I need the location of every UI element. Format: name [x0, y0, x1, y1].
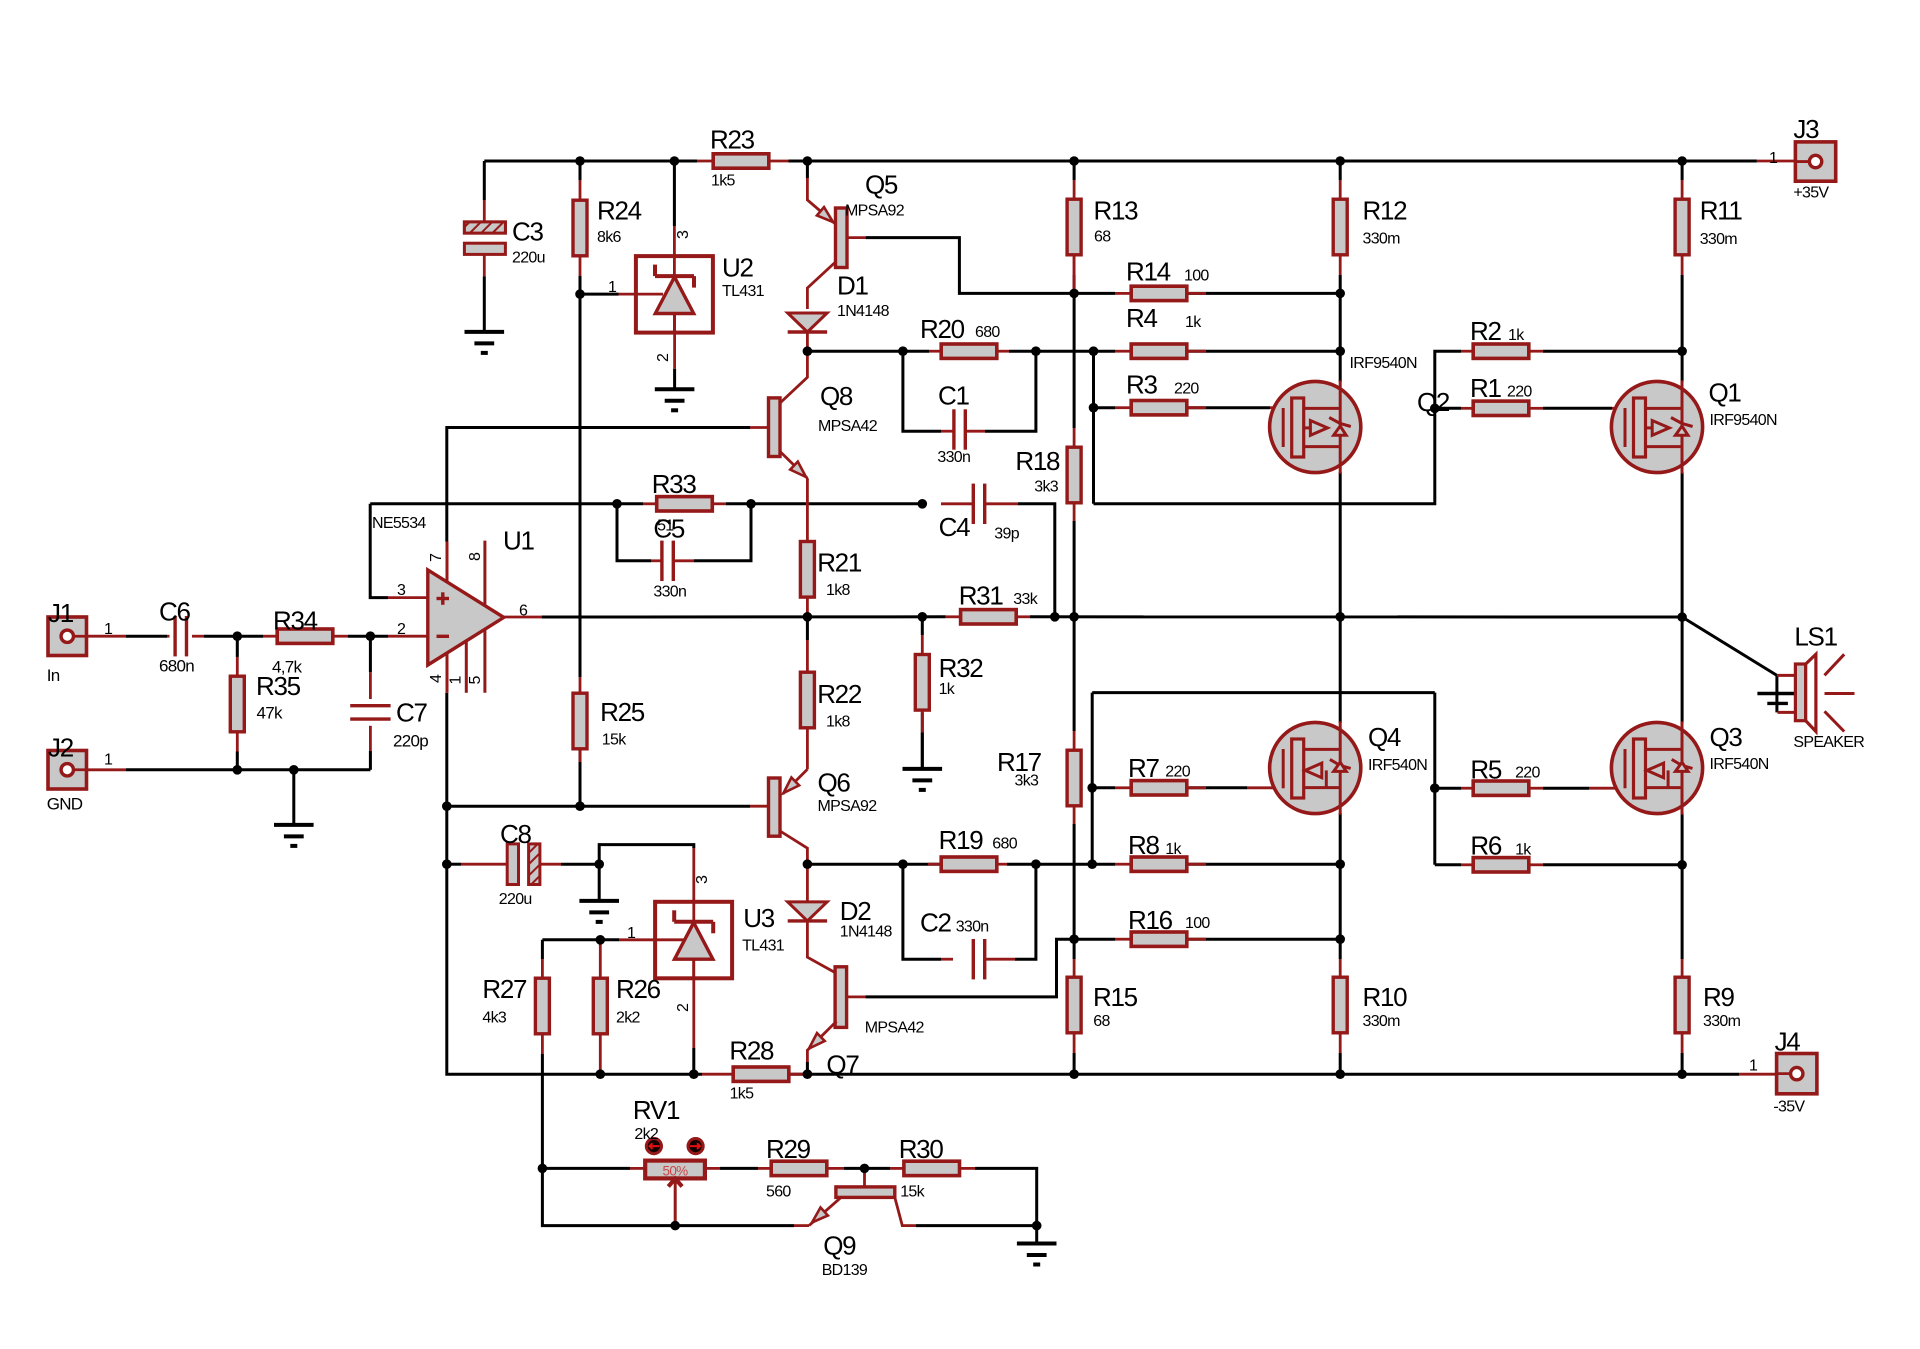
- resistor R7: [1131, 781, 1187, 795]
- resistor R5: [1473, 781, 1529, 795]
- svg-text:2: 2: [655, 353, 672, 362]
- wire C6 to R34 node: [204, 635, 263, 638]
- wire R13 top lead: [1073, 161, 1076, 180]
- svg-text:R22: R22: [817, 679, 862, 709]
- wire U2 gnd: [673, 369, 676, 390]
- wire R33 leads: [617, 502, 643, 505]
- wire R4 leads: [1115, 350, 1131, 353]
- wire R9 leads: [1681, 959, 1684, 977]
- wire C7 leads: [369, 672, 372, 699]
- svg-text:R20: R20: [920, 314, 965, 344]
- wire D2/R19 node row: [807, 863, 941, 866]
- junction node (237.3,636.2): [233, 631, 243, 641]
- wire R3 leads: [1115, 406, 1131, 409]
- wire R9 bottom lead: [1681, 1053, 1684, 1074]
- junction node (446.8,806.2): [442, 801, 452, 811]
- wire Q7 base path: [865, 939, 1074, 997]
- svg-text:Q3: Q3: [1710, 722, 1743, 752]
- resistor R18: [1067, 447, 1081, 503]
- wire R20 leads: [929, 350, 942, 353]
- mosfet Q4 IRF540N: [1270, 722, 1361, 813]
- wire U2 pin2 lead: [673, 333, 676, 369]
- wire R5 row: [1435, 787, 1461, 790]
- wire R1 row: [1435, 407, 1461, 410]
- connector J1: [48, 617, 87, 656]
- wire C4 leads: [941, 502, 973, 505]
- junction node (1682.1,1074.2): [1677, 1069, 1687, 1079]
- svg-text:1N4148: 1N4148: [837, 303, 890, 320]
- resistor R13: [1067, 199, 1081, 255]
- svg-text:J4: J4: [1775, 1027, 1801, 1057]
- resistor R27: [535, 978, 549, 1034]
- wire Q3 source vertical: [1681, 472, 1684, 723]
- svg-text:8: 8: [467, 552, 484, 561]
- junction node (1074.1,939.2): [1069, 934, 1079, 944]
- wire R21 R22 vertical: [806, 617, 809, 640]
- resistor R23: [713, 154, 769, 168]
- svg-text:100: 100: [1185, 915, 1210, 932]
- wire J2 row: [126, 768, 370, 771]
- wire R6 row: [1435, 863, 1461, 866]
- wire C8 leads: [461, 863, 507, 866]
- resistor R12: [1333, 199, 1347, 255]
- resistor R30: [904, 1161, 960, 1175]
- connector J2: [48, 751, 87, 790]
- wire RV1 leads: [630, 1167, 646, 1170]
- mosfet Q1 IRF9540N: [1611, 381, 1702, 472]
- LS1 terminal bars: [1757, 692, 1797, 695]
- svg-text:1k: 1k: [1515, 842, 1532, 859]
- wire R7 row: [1092, 786, 1115, 789]
- junction node (293.8,769.8): [289, 765, 299, 775]
- svg-text:MPSA42: MPSA42: [865, 1020, 925, 1037]
- junction node (1434.8,408.3): [1430, 404, 1440, 414]
- resistor R31: [961, 610, 1017, 624]
- resistor R11: [1675, 199, 1689, 255]
- svg-text:1k5: 1k5: [730, 1085, 754, 1102]
- svg-text:3: 3: [675, 230, 692, 239]
- wire Q4 gate top loop: [1092, 691, 1435, 694]
- wire U3 pin2 lead: [692, 978, 695, 1048]
- svg-text:TL431: TL431: [722, 283, 765, 300]
- svg-text:3k3: 3k3: [1034, 478, 1058, 495]
- svg-text:IRF540N: IRF540N: [1710, 756, 1769, 773]
- junction node (1682.1,617.1): [1677, 612, 1687, 622]
- svg-text:1: 1: [104, 752, 113, 769]
- resistor R32: [915, 655, 929, 711]
- wire C2 leads: [941, 958, 953, 961]
- svg-text:5: 5: [467, 676, 484, 685]
- wire feedback row pin3: [370, 502, 617, 505]
- wire Q6 base lead: [750, 805, 769, 808]
- resistor R4: [1131, 344, 1187, 358]
- resistor R33: [657, 497, 713, 511]
- connector J4: [1777, 1054, 1817, 1094]
- wire R16 row: [1074, 938, 1115, 941]
- svg-text:R15: R15: [1093, 982, 1138, 1012]
- svg-text:R26: R26: [616, 974, 661, 1004]
- svg-text:220: 220: [1174, 381, 1199, 398]
- wire Q9 emitter/collector leads: [794, 1224, 809, 1227]
- potentiometer RV1: [645, 1161, 705, 1179]
- wire pin4 / y806 row: [447, 693, 601, 1074]
- svg-text:4: 4: [428, 674, 445, 683]
- svg-text:R5: R5: [1470, 755, 1501, 785]
- wire J2 pin lead: [87, 768, 127, 771]
- svg-text:1k: 1k: [1165, 841, 1182, 858]
- resistor R28: [733, 1067, 789, 1081]
- ground below U2: [655, 387, 695, 391]
- svg-text:R21: R21: [817, 547, 862, 577]
- svg-text:7: 7: [428, 553, 445, 562]
- junction node (600.3,1074.2): [596, 1069, 606, 1079]
- wire U2 pin1 lead: [619, 293, 664, 296]
- svg-text:3: 3: [397, 582, 406, 599]
- svg-text:15k: 15k: [900, 1183, 925, 1200]
- svg-text:R30: R30: [899, 1134, 944, 1164]
- resistor R29: [771, 1161, 827, 1175]
- wire R24 top lead: [579, 161, 582, 180]
- svg-text:39p: 39p: [994, 526, 1019, 543]
- junction node (580,806.2): [575, 801, 585, 811]
- svg-text:R31: R31: [959, 581, 1004, 611]
- svg-text:220: 220: [1165, 764, 1190, 781]
- svg-text:1k: 1k: [939, 681, 956, 698]
- svg-text:SPEAKER: SPEAKER: [1793, 734, 1864, 751]
- svg-text:6: 6: [519, 602, 528, 619]
- op-amp U1 NE5534: [446, 542, 449, 601]
- wire R35 leads: [236, 657, 239, 676]
- svg-text:220u: 220u: [512, 249, 545, 266]
- svg-text:R1: R1: [1470, 373, 1501, 403]
- svg-text:560: 560: [766, 1183, 791, 1200]
- wire R13 bottom lead: [1073, 255, 1076, 294]
- svg-text:Q4: Q4: [1368, 722, 1401, 752]
- diode D1: [788, 313, 827, 332]
- wire R6 leads: [1461, 863, 1472, 866]
- svg-text:R11: R11: [1700, 196, 1743, 226]
- wire RV1 row: [542, 1167, 630, 1170]
- svg-text:4k3: 4k3: [482, 1009, 506, 1026]
- svg-text:1: 1: [448, 676, 465, 685]
- junction node (1340.2,864.2): [1335, 859, 1345, 869]
- resistor R1: [1473, 401, 1529, 415]
- svg-text:LS1: LS1: [1794, 621, 1837, 651]
- resistor R21: [800, 542, 814, 598]
- svg-text:C7: C7: [396, 697, 427, 727]
- svg-text:TL431: TL431: [742, 937, 785, 954]
- junction node (1035.9,351.2): [1031, 346, 1041, 356]
- svg-text:15k: 15k: [602, 731, 627, 748]
- junction node (1340.2,1074.2): [1335, 1069, 1345, 1079]
- wire R25 vertical: [579, 294, 582, 677]
- svg-text:D2: D2: [840, 896, 871, 926]
- capacitor C3: [464, 222, 505, 233]
- wire R12-R14-R4 vertical: [1339, 275, 1342, 382]
- wire C7 top lead: [369, 636, 372, 672]
- junction node (1035.9,864.2): [1031, 859, 1041, 869]
- ground at J2: [274, 823, 314, 827]
- svg-text:Q5: Q5: [865, 170, 898, 200]
- svg-text:330m: 330m: [1703, 1013, 1741, 1030]
- wire C3 bottom lead: [483, 254, 486, 277]
- junction node (807.4,161): [803, 156, 813, 166]
- ground below C8: [579, 899, 619, 903]
- wire feedback to C4: [751, 502, 922, 505]
- junction node (617,503.8): [612, 499, 622, 509]
- wire J2 gnd stem: [292, 770, 295, 825]
- wire R12 top lead: [1339, 161, 1342, 180]
- junction node (902.9,864.2): [898, 859, 908, 869]
- wire Q5 base to R14 node: [866, 238, 1075, 294]
- svg-text:2k2: 2k2: [616, 1009, 640, 1026]
- svg-text:MPSA92: MPSA92: [818, 798, 878, 815]
- svg-text:33k: 33k: [1013, 591, 1038, 608]
- wire R33 leads: [643, 502, 656, 505]
- svg-text:R10: R10: [1363, 982, 1408, 1012]
- wire C4 right corner: [1018, 504, 1055, 617]
- junction node (751,503.8): [746, 499, 756, 509]
- svg-text:R13: R13: [1094, 196, 1139, 226]
- junction node (807.4,864.2): [803, 859, 813, 869]
- junction node (1074.1,161): [1069, 156, 1079, 166]
- wire C1 loop: [903, 351, 941, 431]
- wire R7 leads: [1115, 786, 1131, 789]
- wire red leads verticals top: [483, 200, 486, 222]
- ground below Q9: [1017, 1242, 1057, 1246]
- capacitor C8: [507, 844, 518, 885]
- wire LS1 pin leads: [1778, 674, 1796, 677]
- svg-text:NE5534: NE5534: [372, 515, 426, 532]
- junction node (1340.2,161): [1335, 156, 1345, 166]
- junction node (599.2,864.2): [594, 859, 604, 869]
- svg-text:1N4148: 1N4148: [840, 924, 893, 941]
- junction node (237.3,769.8): [233, 765, 243, 775]
- junction node (693.8,1074.2): [689, 1069, 699, 1079]
- svg-text:IRF9540N: IRF9540N: [1350, 355, 1417, 372]
- junction node (1036.7,1225.6): [1032, 1221, 1042, 1231]
- wire Q9 gnd stem: [1035, 1226, 1038, 1244]
- svg-text:R23: R23: [710, 125, 755, 155]
- wire C2 loop: [903, 864, 941, 959]
- junction node (580,294.1): [575, 289, 585, 299]
- svg-text:R25: R25: [600, 697, 645, 727]
- wire U1 pin3 lead: [388, 596, 428, 599]
- svg-text:Q2: Q2: [1417, 387, 1450, 417]
- resistor R8: [1131, 857, 1187, 871]
- svg-text:C6: C6: [159, 597, 190, 627]
- diode D2: [806, 864, 809, 902]
- wire LS1 diagonal: [1682, 617, 1777, 675]
- wire R27 to RV1: [541, 1054, 544, 1168]
- resistor R16: [1131, 932, 1187, 946]
- svg-text:680: 680: [992, 835, 1017, 852]
- svg-text:330n: 330n: [956, 919, 989, 936]
- svg-text:1k: 1k: [1508, 327, 1525, 344]
- resistor R24: [573, 200, 587, 256]
- svg-text:C1: C1: [938, 380, 969, 410]
- wire R34 leads: [263, 635, 277, 638]
- capacitor C5: [660, 541, 663, 581]
- svg-text:3: 3: [694, 875, 711, 884]
- wire spine R13-R18-R17-R15: [1073, 275, 1076, 428]
- wire R35 top lead: [236, 636, 239, 657]
- svg-text:In: In: [47, 666, 60, 685]
- svg-text:IRF9540N: IRF9540N: [1710, 412, 1777, 429]
- mosfet Q3 IRF540N: [1611, 722, 1702, 813]
- wire R5 leads: [1461, 787, 1472, 790]
- svg-text:68: 68: [1094, 229, 1111, 246]
- svg-text:1: 1: [1769, 150, 1778, 167]
- svg-text:MPSA42: MPSA42: [818, 418, 878, 435]
- wire R30 leads: [890, 1167, 903, 1170]
- svg-text:Q8: Q8: [820, 381, 853, 411]
- junction node (1340.2,939.2): [1335, 934, 1345, 944]
- svg-text:Q9: Q9: [823, 1231, 856, 1261]
- junction node (1682.1,161): [1677, 156, 1687, 166]
- svg-text:MPSA92: MPSA92: [845, 202, 905, 219]
- wire bottom -35V rail: [600, 1073, 702, 1076]
- wire Q2-Q4 drain vertical: [1339, 472, 1342, 723]
- svg-text:R8: R8: [1128, 830, 1159, 860]
- junction node (580,161): [575, 156, 585, 166]
- wire R10 bottom lead: [1339, 1053, 1342, 1074]
- wire R1 leads: [1461, 407, 1472, 410]
- junction node (1682.1,351.2): [1677, 346, 1687, 356]
- wire J4 lead: [1739, 1073, 1776, 1076]
- svg-text:R6: R6: [1470, 831, 1501, 861]
- junction node (674.4,161): [670, 156, 680, 166]
- svg-text:R2: R2: [1470, 316, 1501, 346]
- junction node (807.4,616.8): [803, 612, 813, 622]
- svg-text:100: 100: [1184, 268, 1209, 285]
- junction node (1092.2,864.2): [1087, 859, 1097, 869]
- svg-text:330m: 330m: [1363, 1013, 1401, 1030]
- svg-text:R19: R19: [939, 825, 984, 855]
- svg-text:R29: R29: [766, 1134, 811, 1164]
- svg-text:R16: R16: [1128, 905, 1173, 935]
- junction node (1434.8,788.2): [1430, 783, 1440, 793]
- resistor R20: [941, 344, 997, 358]
- svg-text:GND: GND: [47, 795, 83, 814]
- svg-text:330m: 330m: [1700, 231, 1738, 248]
- ground below R32: [903, 767, 943, 771]
- svg-text:BD139: BD139: [822, 1262, 868, 1279]
- wire C5 leads: [651, 559, 662, 562]
- resistor R25: [573, 693, 587, 749]
- junction node (675.2,1225.6): [670, 1221, 680, 1231]
- resistor R2: [1473, 344, 1529, 358]
- svg-text:+35V: +35V: [1793, 184, 1829, 201]
- svg-text:680n: 680n: [159, 657, 194, 676]
- wire R5 left vertical: [1433, 693, 1436, 865]
- wire output row: [542, 615, 946, 618]
- capacitor C4: [972, 484, 975, 524]
- svg-text:47k: 47k: [257, 704, 284, 723]
- svg-text:1: 1: [627, 925, 636, 942]
- capacitor C2: [972, 939, 975, 979]
- svg-text:R14: R14: [1126, 257, 1171, 287]
- svg-text:IRF540N: IRF540N: [1368, 757, 1427, 774]
- junction node (1054.8,616.8): [1050, 612, 1060, 622]
- wire Q7 emitter stem: [806, 1062, 809, 1074]
- svg-text:220p: 220p: [393, 732, 428, 751]
- speaker LS1: [1795, 664, 1805, 721]
- junction node (1340.2,293.4): [1335, 289, 1345, 299]
- svg-text:1k8: 1k8: [826, 714, 850, 731]
- wire R29 leads: [758, 1167, 770, 1170]
- svg-text:680: 680: [975, 324, 1000, 341]
- resistor R14: [1131, 286, 1187, 300]
- junction node (807.4,1074.2): [803, 1069, 813, 1079]
- wire Q8 base: [447, 428, 750, 542]
- wire R4 row: [1187, 350, 1340, 353]
- svg-text:C4: C4: [939, 512, 970, 542]
- svg-text:R33: R33: [652, 469, 697, 499]
- wire R17 leads: [1073, 731, 1076, 750]
- svg-text:U1: U1: [503, 526, 534, 556]
- junction node (1074.1,1074.2): [1069, 1069, 1079, 1079]
- wire R11 top lead: [1681, 161, 1684, 180]
- resistor R19: [941, 857, 997, 871]
- transistor Q5: [807, 178, 835, 224]
- svg-text:R28: R28: [729, 1036, 774, 1066]
- svg-text:1k8: 1k8: [826, 582, 850, 599]
- wire U3 pin1 lead: [619, 938, 684, 941]
- svg-text:220: 220: [1507, 384, 1532, 401]
- junction node (600.3,939.8): [596, 935, 606, 945]
- wire R14 leads: [1115, 292, 1131, 295]
- resistor R34: [277, 629, 333, 643]
- mosfet Q2 IRF9540N: [1270, 381, 1361, 472]
- svg-text:Q6: Q6: [818, 768, 851, 798]
- svg-text:R34: R34: [273, 605, 318, 635]
- wire R8 right: [1187, 863, 1340, 866]
- wire U3 pin2 stem: [692, 1048, 695, 1074]
- svg-text:1: 1: [104, 621, 113, 638]
- TL431 U3: [655, 902, 732, 979]
- svg-text:D1: D1: [837, 271, 868, 301]
- wire Q5 collector stub: [806, 161, 809, 178]
- resistor R15: [1067, 977, 1081, 1033]
- svg-text:R27: R27: [482, 974, 527, 1004]
- wire C5 loop: [617, 504, 651, 561]
- wire C1 leads: [941, 430, 954, 433]
- wire R32 leads: [921, 635, 924, 655]
- junction node (922.3,503.8): [918, 499, 928, 509]
- wire R15 leads: [1073, 959, 1076, 977]
- wire U2 pin1 row: [580, 293, 619, 296]
- wire J1 pin lead: [87, 635, 127, 638]
- wire R10 leads: [1339, 959, 1342, 977]
- svg-text:2k2: 2k2: [634, 1126, 658, 1143]
- wire Q1 drain vertical: [1681, 275, 1684, 382]
- junction node (542.4,1168.4): [538, 1164, 548, 1174]
- wire R24 bottom black: [579, 276, 582, 294]
- ground below C3: [465, 330, 505, 334]
- junction node (1340.2,351.2): [1335, 346, 1345, 356]
- wire gate bus to R1/R2: [1094, 351, 1462, 504]
- svg-text:R24: R24: [597, 195, 642, 225]
- wire R16 leads: [1115, 938, 1131, 941]
- svg-text:R35: R35: [256, 671, 301, 701]
- capacitor C7: [350, 704, 390, 707]
- transistor Q7: [835, 967, 847, 1028]
- junction node (1682.1,864.8): [1677, 860, 1687, 870]
- svg-text:R3: R3: [1126, 370, 1157, 400]
- wire Q8 base lead: [750, 426, 769, 429]
- svg-text:U2: U2: [722, 253, 753, 283]
